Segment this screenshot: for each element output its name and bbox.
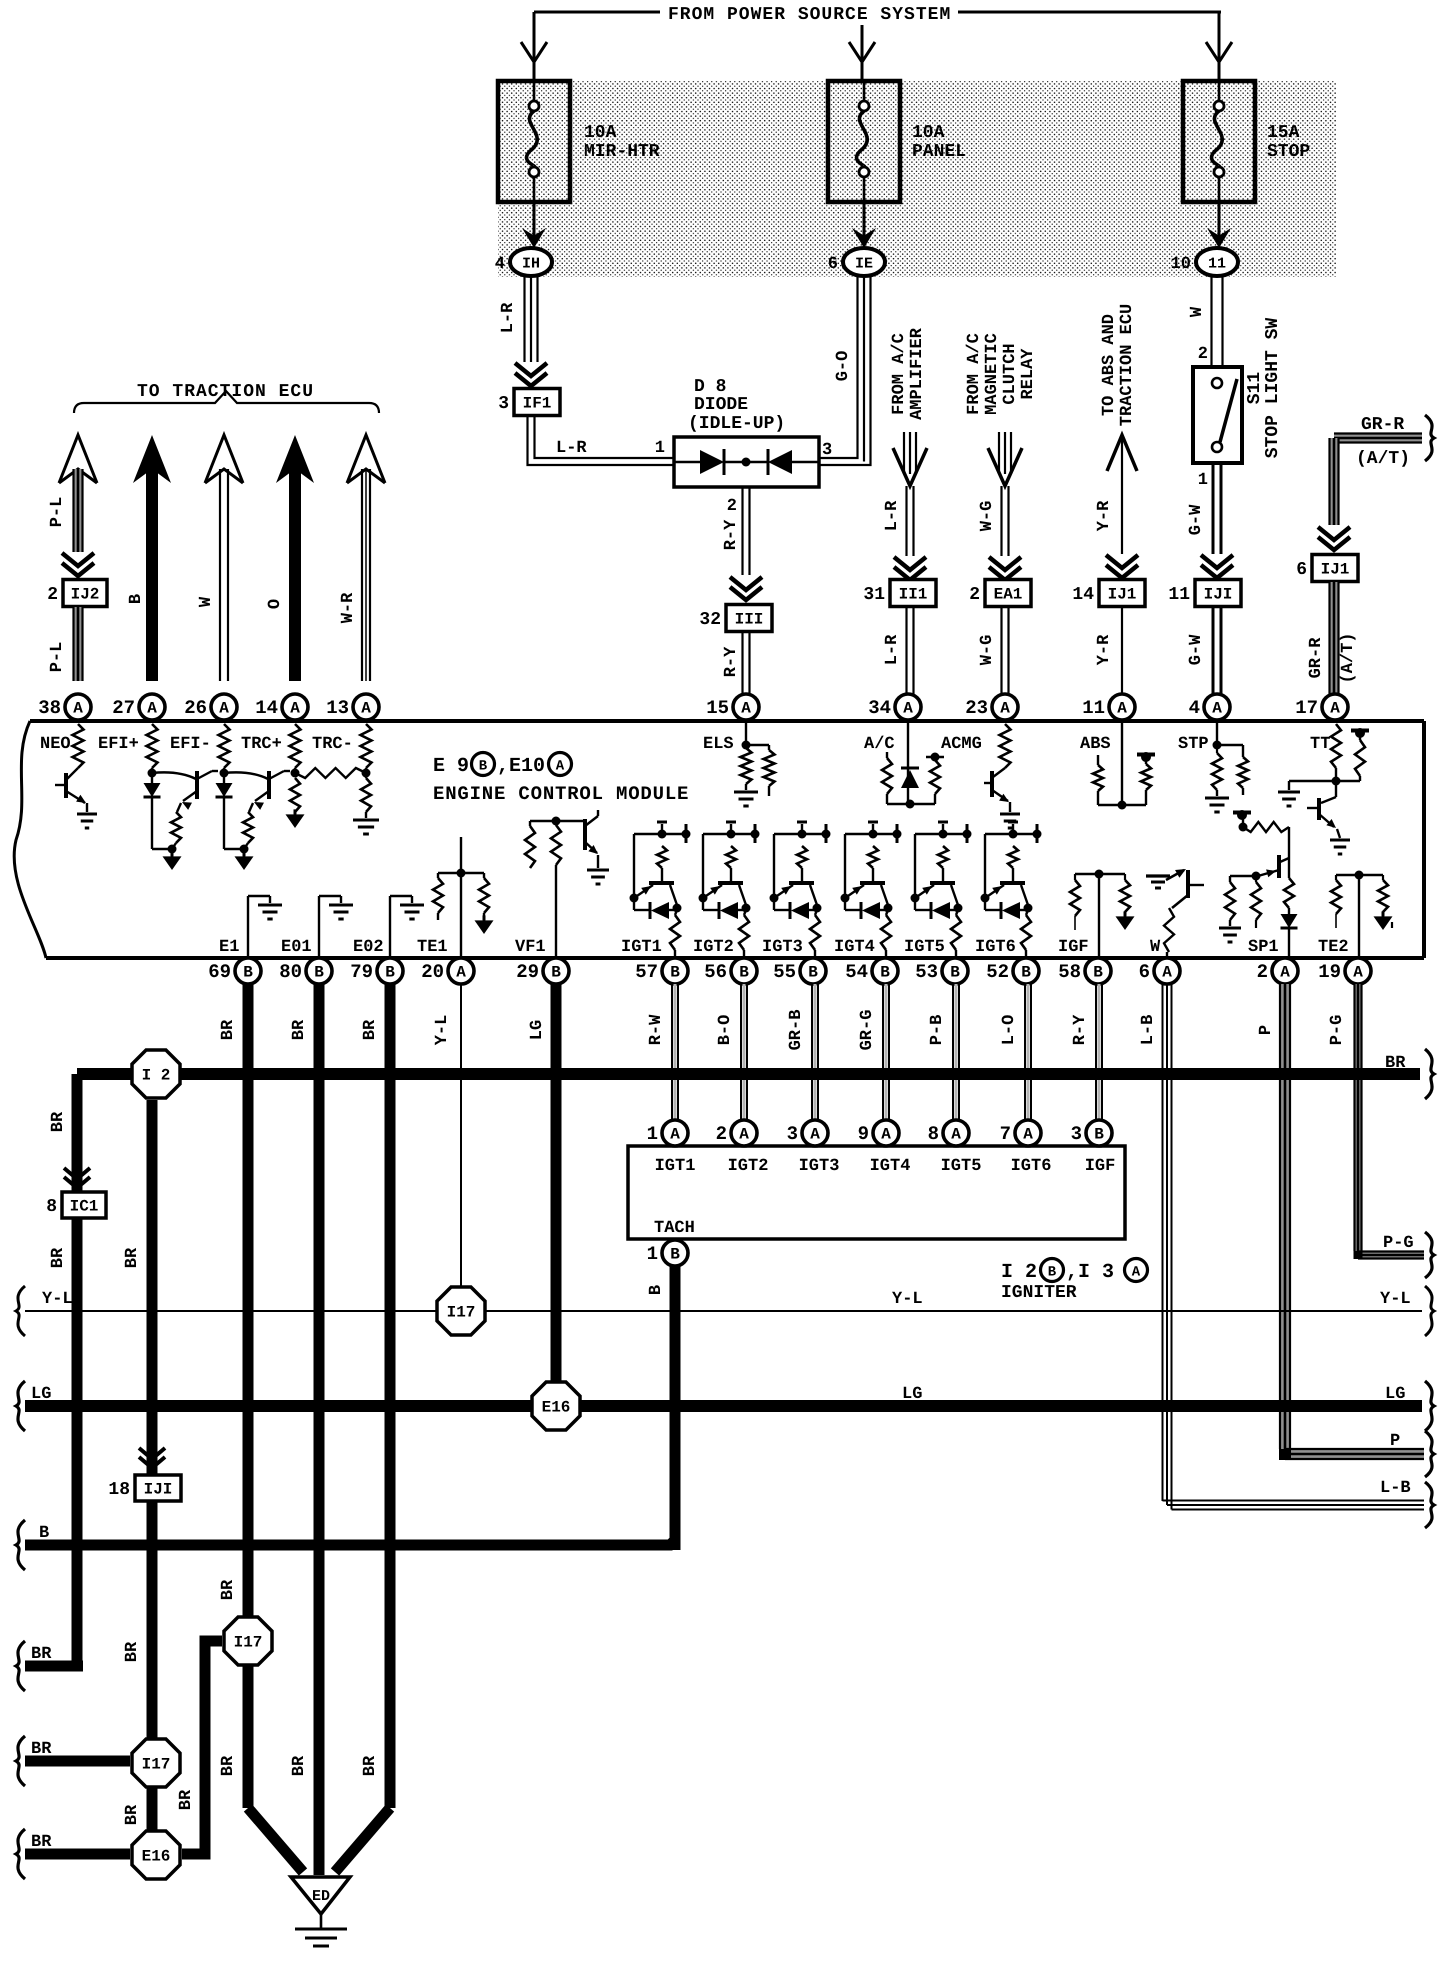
svg-text:BR: BR — [123, 1247, 142, 1268]
svg-text:10A: 10A — [912, 123, 945, 143]
svg-text:L-B: L-B — [1380, 1479, 1411, 1498]
svg-text:TE1: TE1 — [417, 938, 448, 957]
svg-text:B: B — [950, 964, 960, 982]
svg-text:ED: ED — [312, 1888, 330, 1905]
svg-text:EFI+: EFI+ — [98, 735, 139, 754]
svg-text:NEO: NEO — [40, 735, 71, 754]
svg-text:BR: BR — [290, 1019, 309, 1040]
svg-text:IJ1: IJ1 — [1108, 586, 1137, 604]
svg-text:E01: E01 — [281, 938, 312, 957]
svg-text:IGT6: IGT6 — [1011, 1157, 1052, 1176]
svg-text:PANEL: PANEL — [912, 142, 966, 162]
svg-text:A/C: A/C — [864, 735, 895, 754]
svg-text:26: 26 — [184, 697, 207, 719]
svg-text:IGT1: IGT1 — [655, 1157, 696, 1176]
svg-text:IGF: IGF — [1085, 1157, 1116, 1176]
svg-text:IGF: IGF — [1058, 938, 1089, 957]
svg-text:G-W: G-W — [1187, 504, 1206, 535]
svg-text:W: W — [1188, 306, 1207, 317]
svg-text:BR: BR — [219, 1019, 238, 1040]
svg-text:IGT6: IGT6 — [975, 938, 1016, 957]
svg-text:E 9: E 9 — [433, 755, 469, 778]
svg-text:B: B — [127, 594, 146, 604]
svg-text:GR-R: GR-R — [1307, 637, 1326, 679]
svg-text:A: A — [1117, 700, 1127, 718]
svg-text:A: A — [147, 700, 157, 718]
svg-text:6: 6 — [1139, 961, 1150, 983]
svg-text:LG: LG — [528, 1020, 547, 1040]
svg-text:B: B — [670, 964, 680, 982]
svg-text:B: B — [647, 1285, 666, 1295]
svg-text:31: 31 — [863, 585, 885, 605]
svg-text:,I 3: ,I 3 — [1066, 1261, 1114, 1284]
svg-text:P: P — [1257, 1025, 1276, 1035]
svg-text:IGT5: IGT5 — [941, 1157, 982, 1176]
svg-text:I 2: I 2 — [142, 1067, 171, 1085]
svg-text:BR: BR — [31, 1645, 52, 1664]
svg-text:LG: LG — [1385, 1385, 1405, 1404]
svg-text:23: 23 — [965, 697, 988, 719]
svg-text:10A: 10A — [584, 123, 617, 143]
svg-text:IJI: IJI — [1204, 586, 1233, 604]
svg-text:A: A — [903, 700, 913, 718]
svg-text:A: A — [1353, 964, 1363, 982]
svg-text:A: A — [670, 1126, 680, 1144]
svg-text:B: B — [551, 964, 561, 982]
svg-text:Y-R: Y-R — [1095, 500, 1114, 531]
svg-text:EA1: EA1 — [994, 586, 1023, 604]
svg-text:Y-L: Y-L — [433, 1015, 452, 1046]
svg-text:B: B — [808, 964, 818, 982]
svg-text:A: A — [290, 700, 300, 718]
svg-text:79: 79 — [350, 961, 373, 983]
svg-text:E16: E16 — [142, 1848, 171, 1866]
svg-text:R-W: R-W — [647, 1014, 666, 1045]
svg-text:IGT4: IGT4 — [870, 1157, 911, 1176]
svg-text:IGT3: IGT3 — [799, 1157, 840, 1176]
svg-text:A: A — [361, 700, 371, 718]
svg-text:A: A — [1280, 964, 1290, 982]
svg-text:55: 55 — [773, 961, 796, 983]
svg-text:S11: S11 — [1245, 372, 1265, 405]
svg-text:38: 38 — [38, 697, 61, 719]
svg-text:B: B — [739, 964, 749, 982]
svg-text:BR: BR — [361, 1019, 380, 1040]
svg-text:CLUTCH: CLUTCH — [1001, 343, 1020, 404]
svg-text:MIR-HTR: MIR-HTR — [584, 142, 660, 162]
svg-text:6: 6 — [1296, 560, 1307, 580]
svg-text:G-O: G-O — [834, 351, 853, 382]
svg-text:9: 9 — [858, 1123, 869, 1145]
svg-text:BR: BR — [219, 1579, 238, 1600]
svg-text:3: 3 — [498, 394, 509, 414]
svg-text:2: 2 — [1257, 961, 1268, 983]
svg-text:A: A — [810, 1126, 820, 1144]
svg-text:W-R: W-R — [339, 592, 358, 623]
svg-text:P-G: P-G — [1383, 1234, 1414, 1253]
svg-text:1: 1 — [655, 439, 665, 458]
svg-text:A: A — [456, 964, 466, 982]
svg-text:29: 29 — [516, 961, 539, 983]
svg-text:TRC+: TRC+ — [241, 735, 282, 754]
svg-text:2: 2 — [47, 585, 58, 605]
svg-text:IGT2: IGT2 — [693, 938, 734, 957]
svg-text:8: 8 — [46, 1197, 57, 1217]
svg-text:BR: BR — [123, 1641, 142, 1662]
svg-text:IGT3: IGT3 — [762, 938, 803, 957]
svg-text:2: 2 — [716, 1123, 727, 1145]
svg-text:L-R: L-R — [883, 500, 902, 531]
svg-text:IJ2: IJ2 — [71, 586, 100, 604]
svg-text:W: W — [197, 596, 216, 607]
svg-text:P-L: P-L — [48, 497, 67, 528]
svg-text:I17: I17 — [234, 1634, 263, 1652]
svg-text:BR: BR — [31, 1833, 52, 1852]
svg-text:Y-L: Y-L — [42, 1290, 73, 1309]
svg-text:P-L: P-L — [48, 642, 67, 673]
svg-text:Y-R: Y-R — [1095, 634, 1114, 665]
svg-text:3: 3 — [1071, 1123, 1082, 1145]
svg-text:3: 3 — [822, 441, 832, 460]
svg-text:B: B — [1093, 964, 1103, 982]
svg-text:ELS: ELS — [703, 735, 734, 754]
svg-text:D 8: D 8 — [694, 377, 726, 397]
svg-text:2: 2 — [969, 585, 980, 605]
svg-text:BR: BR — [177, 1789, 196, 1810]
svg-text:E1: E1 — [219, 938, 239, 957]
svg-text:IJ1: IJ1 — [1321, 561, 1350, 579]
svg-text:TE2: TE2 — [1318, 938, 1349, 957]
svg-text:3: 3 — [787, 1123, 798, 1145]
svg-text:A: A — [1023, 1126, 1033, 1144]
svg-text:B: B — [670, 1246, 680, 1264]
svg-text:E16: E16 — [542, 1399, 571, 1417]
svg-text:I 2: I 2 — [1001, 1261, 1037, 1284]
svg-text:B-O: B-O — [716, 1015, 735, 1046]
svg-text:STOP LIGHT SW: STOP LIGHT SW — [1263, 318, 1283, 459]
svg-text:GR-G: GR-G — [858, 1010, 877, 1051]
svg-text:BR: BR — [123, 1804, 142, 1825]
svg-text:7: 7 — [1000, 1123, 1011, 1145]
svg-text:IGT4: IGT4 — [834, 938, 875, 957]
svg-text:L-B: L-B — [1139, 1015, 1158, 1046]
svg-text:TRC-: TRC- — [312, 735, 353, 754]
svg-text:20: 20 — [421, 961, 444, 983]
svg-text:W: W — [1150, 938, 1161, 957]
svg-text:AMPLIFIER: AMPLIFIER — [908, 327, 927, 420]
svg-text:I17: I17 — [142, 1756, 171, 1774]
svg-text:1: 1 — [647, 1123, 658, 1145]
svg-text:IGT1: IGT1 — [621, 938, 662, 957]
svg-text:A: A — [1000, 700, 1010, 718]
svg-text:DIODE: DIODE — [694, 395, 748, 415]
svg-text:53: 53 — [915, 961, 938, 983]
svg-text:P-G: P-G — [1328, 1015, 1347, 1046]
svg-text:IH: IH — [522, 256, 540, 273]
svg-text:15A: 15A — [1267, 123, 1300, 143]
svg-text:FROM A/C: FROM A/C — [890, 333, 909, 415]
svg-text:8: 8 — [928, 1123, 939, 1145]
svg-text:P-B: P-B — [928, 1015, 947, 1046]
svg-text:FROM A/C: FROM A/C — [965, 333, 984, 415]
svg-text:27: 27 — [112, 697, 135, 719]
svg-text:IGT2: IGT2 — [728, 1157, 769, 1176]
svg-text:14: 14 — [1072, 585, 1094, 605]
svg-text:B: B — [314, 964, 324, 982]
svg-text:,E10: ,E10 — [497, 755, 545, 778]
svg-text:W-G: W-G — [978, 635, 997, 666]
svg-text:2: 2 — [727, 497, 737, 516]
svg-text:19: 19 — [1318, 961, 1341, 983]
svg-text:B: B — [385, 964, 395, 982]
svg-text:LG: LG — [902, 1385, 922, 1404]
svg-text:2: 2 — [1198, 345, 1208, 364]
svg-text:1: 1 — [1198, 471, 1208, 490]
svg-text:O: O — [266, 599, 285, 609]
svg-text:L-O: L-O — [1000, 1015, 1019, 1046]
svg-text:B: B — [1021, 964, 1031, 982]
svg-text:A: A — [1212, 700, 1222, 718]
svg-text:6: 6 — [828, 255, 838, 274]
svg-text:W-G: W-G — [978, 501, 997, 532]
svg-text:4: 4 — [1189, 697, 1200, 719]
svg-text:BR: BR — [290, 1755, 309, 1776]
svg-text:17: 17 — [1295, 697, 1318, 719]
svg-text:GR-R: GR-R — [1361, 415, 1404, 435]
svg-text:18: 18 — [108, 1480, 130, 1500]
svg-text:A: A — [951, 1126, 961, 1144]
svg-text:Y-L: Y-L — [1380, 1290, 1411, 1309]
svg-text:80: 80 — [279, 961, 302, 983]
svg-text:ENGINE CONTROL MODULE: ENGINE CONTROL MODULE — [433, 783, 689, 805]
svg-text:11: 11 — [1168, 585, 1190, 605]
svg-text:IGT5: IGT5 — [904, 938, 945, 957]
svg-text:4: 4 — [495, 255, 505, 274]
svg-text:VF1: VF1 — [515, 938, 546, 957]
svg-text:R-Y: R-Y — [722, 519, 741, 550]
svg-text:SP1: SP1 — [1248, 938, 1279, 957]
svg-text:G-W: G-W — [1187, 634, 1206, 665]
svg-text:(IDLE-UP): (IDLE-UP) — [688, 414, 785, 434]
svg-text:BR: BR — [361, 1755, 380, 1776]
svg-text:15: 15 — [706, 697, 729, 719]
svg-text:GR-B: GR-B — [787, 1010, 806, 1051]
svg-text:RELAY: RELAY — [1019, 348, 1038, 400]
svg-text:BR: BR — [219, 1755, 238, 1776]
svg-text:IJI: IJI — [144, 1481, 173, 1499]
svg-text:BR: BR — [49, 1247, 68, 1268]
svg-text:TT: TT — [1310, 735, 1330, 754]
svg-text:34: 34 — [868, 697, 891, 719]
svg-text:B: B — [479, 759, 488, 775]
svg-text:A: A — [741, 700, 751, 718]
svg-text:B: B — [243, 964, 253, 982]
svg-text:ABS: ABS — [1080, 735, 1111, 754]
svg-text:TO ABS AND: TO ABS AND — [1100, 314, 1119, 416]
svg-text:A: A — [219, 700, 229, 718]
svg-text:14: 14 — [255, 697, 278, 719]
svg-text:BR: BR — [31, 1740, 52, 1759]
svg-text:STOP: STOP — [1267, 142, 1310, 162]
svg-text:A: A — [1162, 964, 1172, 982]
svg-text:54: 54 — [845, 961, 868, 983]
svg-text:I17: I17 — [447, 1304, 476, 1322]
svg-text:A: A — [1330, 700, 1340, 718]
svg-text:BR: BR — [49, 1111, 68, 1132]
svg-text:(A/T): (A/T) — [1339, 632, 1358, 683]
svg-text:(A/T): (A/T) — [1356, 449, 1410, 469]
svg-text:11: 11 — [1208, 256, 1226, 273]
svg-text:11: 11 — [1082, 697, 1105, 719]
svg-text:BR: BR — [1385, 1054, 1406, 1073]
svg-text:E02: E02 — [353, 938, 384, 957]
svg-text:A: A — [1132, 1265, 1141, 1281]
svg-text:32: 32 — [699, 610, 721, 630]
svg-text:A: A — [73, 700, 83, 718]
svg-text:58: 58 — [1058, 961, 1081, 983]
svg-text:B: B — [1048, 1265, 1057, 1281]
svg-text:R-Y: R-Y — [1071, 1014, 1090, 1045]
svg-text:IGNITER: IGNITER — [1001, 1283, 1077, 1303]
svg-text:II1: II1 — [899, 586, 928, 604]
svg-text:A: A — [556, 759, 565, 775]
svg-text:B: B — [39, 1524, 49, 1543]
svg-text:P: P — [1390, 1432, 1400, 1451]
svg-text:A: A — [739, 1126, 749, 1144]
svg-text:1: 1 — [647, 1243, 658, 1265]
svg-text:Y-L: Y-L — [892, 1290, 923, 1309]
svg-text:13: 13 — [326, 697, 349, 719]
svg-text:10: 10 — [1171, 255, 1191, 274]
svg-text:TRACTION ECU: TRACTION ECU — [1118, 304, 1137, 426]
svg-text:L-R: L-R — [883, 634, 902, 665]
svg-text:B: B — [880, 964, 890, 982]
svg-text:IF1: IF1 — [523, 395, 552, 413]
svg-text:56: 56 — [704, 961, 727, 983]
svg-text:STP: STP — [1178, 735, 1209, 754]
svg-text:IE: IE — [855, 256, 873, 273]
svg-text:52: 52 — [986, 961, 1009, 983]
svg-text:A: A — [881, 1126, 891, 1144]
svg-text:57: 57 — [635, 961, 658, 983]
svg-text:FROM POWER SOURCE SYSTEM: FROM POWER SOURCE SYSTEM — [668, 5, 951, 25]
svg-text:III: III — [735, 611, 764, 629]
svg-text:R-Y: R-Y — [722, 646, 741, 677]
svg-text:MAGNETIC: MAGNETIC — [983, 333, 1002, 415]
svg-text:EFI-: EFI- — [170, 735, 211, 754]
svg-text:B: B — [1094, 1126, 1104, 1144]
svg-text:L-R: L-R — [499, 302, 518, 333]
svg-text:69: 69 — [208, 961, 231, 983]
svg-text:TACH: TACH — [654, 1219, 695, 1238]
svg-text:ACMG: ACMG — [941, 735, 982, 754]
svg-text:L-R: L-R — [556, 439, 587, 458]
svg-text:LG: LG — [31, 1385, 51, 1404]
svg-text:IC1: IC1 — [70, 1198, 99, 1216]
